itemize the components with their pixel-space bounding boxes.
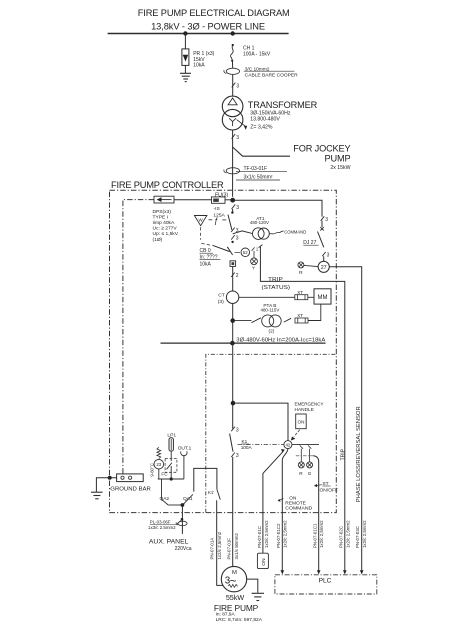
svg-text:PN-07-01C: PN-07-01C: [257, 526, 262, 548]
label OUT,1: [178, 446, 192, 452]
wire phase loss sensor line: [329, 267, 361, 571]
svg-text:Up: ≤ 1,5kV: Up: ≤ 1,5kV: [153, 231, 179, 237]
svg-text:ƒ: ƒ: [214, 217, 219, 226]
svg-text:PN-07-03C: PN-07-03C: [355, 526, 360, 548]
contact K1 aux: [208, 489, 220, 499]
contact box FC dashed: [161, 458, 177, 476]
label FOR JOCKEY PUMP: [293, 144, 350, 171]
wire AT1 branch: [233, 231, 252, 234]
terminal OUT1: [181, 451, 187, 455]
surge arrester triangle: [194, 216, 207, 226]
svg-text:1x2/c 2,5mm2: 1x2/c 2,5mm2: [362, 520, 367, 548]
pushbutton ON local: [257, 553, 268, 568]
phase tick 3: [231, 228, 239, 235]
wire jockey pump branch: [233, 147, 290, 156]
surge protector DPS: [154, 196, 174, 203]
svg-text:TRANSFORMER: TRANSFORMER: [248, 100, 318, 110]
svg-text:10kA: 10kA: [193, 62, 205, 68]
label PN-07-01C1 vertical: [313, 520, 325, 548]
svg-text:1x2/c 2,5mm2: 1x2/c 2,5mm2: [217, 531, 222, 559]
motor M fire pump: [221, 566, 246, 591]
label TRANSFORMER specs: [248, 100, 318, 131]
svg-text:TRIP: TRIP: [268, 277, 283, 283]
wire ST on/off to PLC: [313, 456, 318, 571]
label AT1 480-120V: [250, 216, 269, 225]
svg-text:ON/OFF: ON/OFF: [320, 488, 338, 494]
label 3/C 10mm2 cable bare cooper: [244, 66, 298, 78]
terminal XT lower: [295, 313, 308, 323]
label K1 100A: [241, 439, 253, 450]
label TF-03-01F 3x1/c 50mm2: [236, 166, 287, 180]
node PR1 tap junction: [183, 31, 187, 35]
wire branch to DJ27: [235, 200, 322, 216]
cable symbol aux: [176, 521, 187, 525]
label CB 0 In 10kA: [200, 248, 221, 268]
lamp G lower: [307, 462, 313, 476]
fuse LP1: [169, 438, 173, 451]
wire power line: [108, 33, 289, 35]
wire CT to XT: [239, 296, 295, 298]
lamp Y with tick 1: [251, 247, 259, 272]
label FU(3): [215, 192, 229, 198]
wire node to coil 42: [235, 403, 288, 441]
arrow into PLC from 42: [281, 570, 285, 574]
svg-text:480-115V: 480-115V: [261, 308, 280, 313]
svg-text:PN-07-01C2: PN-07-01C2: [276, 523, 281, 548]
switch QA1: [183, 494, 193, 504]
label GROUND BAR: [110, 487, 151, 493]
svg-text:3: 3: [236, 228, 239, 234]
wire: [321, 221, 323, 227]
svg-text:FOR JOCKEY: FOR JOCKEY: [293, 144, 350, 154]
wire motor ground: [247, 579, 258, 593]
wire ground bar to earth: [96, 476, 116, 492]
label FIRE PUMP CONTROLLER: [111, 180, 224, 190]
surge arrester PR1: [182, 49, 189, 66]
wire LP1 to FC: [170, 451, 172, 461]
wire trip status: [259, 245, 345, 571]
svg-text:480-120V: 480-120V: [250, 220, 269, 225]
svg-text:13,8kV - 3Ø - POWER LINE: 13,8kV - 3Ø - POWER LINE: [151, 22, 265, 32]
label DJ 27: [303, 240, 318, 246]
phase tick 3 on DJ27 branch: [321, 216, 329, 223]
svg-text:52: 52: [243, 250, 248, 255]
label PN-07-03C vertical: [355, 520, 367, 548]
svg-text:1x2/c 2,5mm2: 1x2/c 2,5mm2: [282, 520, 287, 548]
arrow emergency to 42: [291, 430, 300, 441]
svg-text:OUT,1: OUT,1: [178, 446, 192, 452]
label PN-07-01A vertical: [209, 531, 222, 559]
phase tick 3: [232, 134, 240, 141]
label EMERGENCY HANDLE: [295, 401, 325, 413]
svg-text:9-60°C: 9-60°C: [150, 463, 155, 477]
svg-text:42: 42: [286, 442, 291, 447]
wire remote command 42 to PLC: [282, 449, 288, 571]
phase tick 3: [232, 83, 240, 90]
phase tick 3: [322, 252, 329, 259]
svg-text:(2): (2): [269, 329, 275, 334]
svg-text:-IS: -IS: [214, 206, 221, 212]
title FIRE PUMP ELECTRICAL DIAGRAM: [138, 8, 290, 18]
linkage lamps dash-dot: [296, 455, 314, 457]
switch blade PTA left: [252, 318, 261, 323]
switch blade PTA right: [284, 318, 291, 322]
node CH1 tap junction: [231, 31, 235, 35]
phase tick 2: [231, 273, 239, 280]
svg-text:G: G: [308, 471, 312, 476]
label ST ON/OFF with arrow: [314, 481, 338, 494]
label AUX PANEL 220Vca: [149, 539, 192, 552]
ground symbol left: [91, 492, 103, 499]
svg-text:TF-03-01F: TF-03-01F: [244, 166, 268, 172]
wire cable to transformer: [232, 74, 234, 96]
lamp R upper: [298, 262, 318, 276]
svg-text:3: 3: [327, 252, 330, 258]
label DPS(x3) specs: [153, 209, 179, 243]
overload element box: [230, 261, 236, 267]
arrow into PLC ST: [317, 570, 321, 574]
wire OUT1 down: [183, 456, 185, 479]
label PN-07-01C2 vertical: [276, 520, 288, 548]
svg-text:(3): (3): [218, 299, 224, 305]
node PTA junction: [230, 318, 235, 323]
svg-text:XT: XT: [297, 313, 303, 318]
wire arrester to ground: [184, 65, 186, 73]
svg-text:ON: ON: [261, 558, 267, 566]
label COMMAND: [284, 229, 306, 235]
wire to relay 27: [323, 256, 325, 261]
label PN-07-01C vertical: [257, 520, 269, 548]
lamp R lower: [298, 462, 304, 476]
svg-text:(1Ø): (1Ø): [153, 237, 163, 243]
svg-text:LRC: 8,7xIn: 597,82A: LRC: 8,7xIn: 597,82A: [216, 617, 262, 622]
wire thermostat bottom bus: [158, 469, 184, 481]
node contact: [231, 241, 233, 243]
controller enclosure dash-dot box: [110, 190, 337, 512]
wire QA2 riser: [161, 479, 163, 499]
svg-text:K1: K1: [242, 439, 248, 444]
svg-text:FC: FC: [161, 471, 168, 476]
svg-text:3: 3: [236, 83, 239, 89]
svg-text:PN-07-01F: PN-07-01F: [227, 538, 232, 560]
fuse FU(3): [212, 197, 226, 203]
wire CH1 to cable: [231, 61, 233, 68]
label PR 1 (x3) 15kV 10kA: [193, 51, 214, 68]
svg-text:COMMAND: COMMAND: [284, 229, 306, 235]
wire XT to MM: [308, 296, 314, 298]
switch DJ27 blade: [318, 232, 324, 248]
label PL-03-06F cable: [148, 518, 183, 530]
svg-text:ON: ON: [289, 495, 296, 500]
x mark manual trip: [320, 227, 324, 230]
wire XT to MM bottom: [308, 304, 321, 320]
svg-text:Z= 3,42%: Z= 3,42%: [250, 125, 273, 131]
svg-text:1x2/c 2,5mm2: 1x2/c 2,5mm2: [264, 520, 269, 548]
svg-text:COMMAND: COMMAND: [285, 506, 313, 511]
wire FU to node: [225, 199, 231, 201]
svg-text:3: 3: [236, 205, 239, 211]
svg-text:3x1/c 50mm2: 3x1/c 50mm2: [234, 533, 239, 560]
svg-text:220Vca: 220Vca: [175, 546, 192, 552]
label CH 1 100A - 15kV: [243, 46, 271, 58]
svg-text:3Ø-480V-60Hz In=200A-Icc=18kA: 3Ø-480V-60Hz In=200A-Icc=18kA: [236, 338, 325, 344]
svg-text:27: 27: [321, 265, 327, 271]
svg-text:EMERGENCY: EMERGENCY: [295, 401, 325, 407]
arrow into PLC sensor: [360, 570, 364, 574]
label TRIP vertical: [340, 448, 346, 460]
inner enclosure dash-dot (left section): [123, 200, 154, 474]
PLC box: [275, 575, 377, 594]
svg-text:3: 3: [236, 135, 239, 141]
svg-text:PL-03-06F: PL-03-06F: [150, 519, 171, 524]
label ON REMOTE COMMAND: [278, 495, 313, 510]
svg-text:CABLE BARE COOPER: CABLE BARE COOPER: [245, 73, 299, 79]
wire local ON 42 to pushbutton: [263, 449, 285, 553]
switch QA2: [160, 496, 170, 505]
breaker 52 circle: [235, 248, 250, 257]
svg-text:K1': K1': [208, 490, 214, 495]
ground symbol motor: [252, 593, 264, 600]
wire PTA branch: [235, 320, 252, 322]
svg-text:TRIP: TRIP: [340, 448, 346, 460]
lamp R contact drop: [300, 445, 303, 462]
wire DPS to FU: [174, 199, 212, 201]
svg-text:13.800-480V: 13.800-480V: [250, 116, 280, 122]
svg-text:AUX. PANEL: AUX. PANEL: [149, 539, 189, 546]
svg-text:MM: MM: [318, 295, 328, 301]
arrow into PLC TRIP: [343, 570, 347, 574]
terminal XT upper: [295, 290, 308, 300]
svg-text:TYPE I: TYPE I: [153, 214, 169, 220]
svg-text:DPS(x3): DPS(x3): [153, 209, 172, 215]
svg-text:1x3/c 2.5mm2: 1x3/c 2.5mm2: [148, 525, 176, 530]
wire: [232, 303, 234, 343]
label 9-60C vertical: [150, 463, 155, 477]
phase tick 3 above IS: [232, 204, 240, 211]
svg-text:FIRE PUMP ELECTRICAL DIAGRAM: FIRE PUMP ELECTRICAL DIAGRAM: [138, 8, 290, 18]
svg-text:PN-07-01C1: PN-07-01C1: [313, 523, 318, 548]
cable symbol TF-03-01F: [224, 168, 240, 174]
svg-text:3: 3: [325, 217, 328, 223]
transformer T1: [222, 96, 247, 130]
svg-text:10kA: 10kA: [200, 262, 212, 268]
svg-text:CT: CT: [218, 293, 225, 299]
pushbutton ON emergency: [296, 414, 307, 429]
svg-text:PN-07-02C: PN-07-02C: [339, 526, 344, 548]
breaker 52 blade: [227, 247, 232, 255]
contactor coil 42: [284, 441, 292, 449]
lamp G contact drop: [308, 445, 311, 462]
wire: [232, 266, 234, 291]
switch CH1 fuse-cutout: [230, 44, 233, 62]
label bus 3phase 480V: [236, 338, 325, 344]
subtitle 13,8kV power line: [151, 22, 265, 32]
svg-text:PN-07-01A: PN-07-01A: [209, 538, 214, 560]
wire command squiggle: [269, 231, 283, 234]
svg-text:2: 2: [236, 273, 239, 279]
transformer AT1: [252, 228, 269, 240]
svg-text:100A - 15kV: 100A - 15kV: [243, 51, 271, 57]
node main junction: [230, 198, 235, 203]
svg-text:Uc: ≥ 277V: Uc: ≥ 277V: [153, 226, 178, 232]
label LP1: [167, 432, 176, 438]
label -IS 125A: [213, 206, 225, 218]
svg-text:GROUND BAR: GROUND BAR: [110, 487, 151, 493]
svg-text:FIRE PUMP CONTROLLER: FIRE PUMP CONTROLLER: [111, 180, 224, 190]
label PHASE LOSS/REVERSAL SENSOR vertical: [356, 406, 362, 502]
label 55kW FIRE PUMP specs: [214, 593, 262, 622]
svg-text:QA2: QA2: [160, 496, 170, 502]
svg-text:R: R: [299, 270, 303, 276]
label PN-07-02C vertical: [339, 520, 351, 548]
svg-text:3: 3: [236, 236, 239, 242]
svg-text:2x 15kW: 2x 15kW: [330, 165, 350, 171]
dashed link arrester to CB0: [201, 227, 212, 245]
svg-text:PHASE LOSS/REVERSAL SENSOR: PHASE LOSS/REVERSAL SENSOR: [356, 406, 362, 502]
label PTA B 480-115V (2): [261, 303, 280, 333]
wire transformer down: [232, 130, 234, 197]
wire lamps feed: [292, 444, 319, 446]
node K1 junction: [231, 401, 236, 406]
phase tick 3: [231, 235, 239, 242]
wire aux panel drop: [181, 505, 183, 534]
svg-text:ON: ON: [298, 420, 305, 425]
wire QA bottom: [168, 503, 184, 507]
current transformer CT: [218, 291, 239, 305]
svg-text:FU(3): FU(3): [215, 192, 229, 198]
svg-text:Iimp 40kA: Iimp 40kA: [153, 220, 175, 226]
wire pi shape to K1 aux: [194, 468, 217, 491]
inner dashed box lower section: [206, 354, 336, 512]
meter MM: [314, 289, 331, 304]
label PN-07-01F vertical: [227, 533, 240, 560]
wire PR1 drop: [184, 34, 186, 49]
svg-text:55kW: 55kW: [226, 593, 245, 602]
wire PN-07-01A to motor: [217, 500, 224, 585]
ground PR1: [180, 73, 191, 81]
svg-text:(STATUS): (STATUS): [262, 285, 291, 291]
thermostat 23: [154, 459, 164, 469]
wire main motor feed: [232, 457, 234, 567]
ground bar: [117, 474, 144, 482]
svg-text:PLC: PLC: [319, 578, 332, 585]
svg-text:3: 3: [236, 453, 239, 459]
relay 27 undervoltage: [318, 261, 329, 272]
switch IS 125A: [228, 209, 234, 230]
svg-text:HANDLE: HANDLE: [295, 407, 314, 413]
label TRIP (STATUS): [262, 277, 291, 291]
breaker CB0 blade: [213, 245, 230, 251]
switch K1 100A: [230, 427, 239, 459]
svg-text:1x2/c 2,5mm2: 1x2/c 2,5mm2: [346, 520, 351, 548]
linkage K1 to 42 dash-dot: [238, 444, 284, 446]
cable symbol 3/C: [224, 68, 240, 74]
bus bar 480V: [161, 341, 326, 346]
svg-text:3x1/c 50mm²: 3x1/c 50mm²: [244, 175, 273, 181]
transformer PTA B: [262, 315, 282, 327]
wire main bus to K1: [232, 343, 234, 429]
svg-text:In: 87,9A: In: 87,9A: [216, 611, 235, 616]
svg-text:23: 23: [156, 462, 161, 467]
trip linkage dashes with f: [209, 217, 227, 226]
svg-text:PUMP: PUMP: [325, 153, 351, 163]
heater zigzag: [157, 447, 161, 458]
svg-text:100A: 100A: [241, 445, 253, 450]
svg-text:1x2/c 2,5mm2: 1x2/c 2,5mm2: [319, 520, 324, 548]
svg-text:3: 3: [236, 427, 239, 433]
